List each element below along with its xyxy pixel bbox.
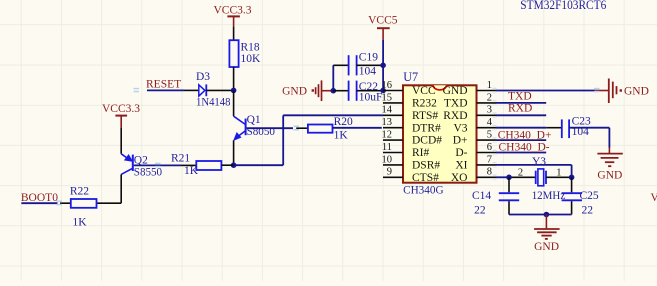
svg-text:16: 16 xyxy=(382,80,393,91)
svg-text:R18: R18 xyxy=(241,42,260,54)
svg-text:8: 8 xyxy=(487,167,492,178)
svg-text:V3: V3 xyxy=(453,122,467,134)
svg-text:22: 22 xyxy=(474,205,486,217)
svg-text:RXD: RXD xyxy=(443,110,467,122)
svg-text:DCD#: DCD# xyxy=(412,135,442,147)
svg-text:D-: D- xyxy=(455,147,467,159)
svg-text:U7: U7 xyxy=(403,70,418,84)
svg-text:12: 12 xyxy=(382,130,393,141)
svg-text:1N4148: 1N4148 xyxy=(196,97,231,109)
svg-text:RXD: RXD xyxy=(508,103,532,115)
svg-text:13: 13 xyxy=(382,117,393,128)
svg-text:6: 6 xyxy=(487,142,492,153)
svg-text:12MHz: 12MHz xyxy=(532,190,566,202)
svg-text:RTS#: RTS# xyxy=(412,110,438,122)
svg-text:C25: C25 xyxy=(580,190,599,202)
svg-text:CTS#: CTS# xyxy=(412,172,439,184)
svg-text:VCC: VCC xyxy=(412,85,436,97)
svg-text:1: 1 xyxy=(487,80,492,91)
svg-text:5: 5 xyxy=(487,130,492,141)
svg-text:CH340G: CH340G xyxy=(403,184,444,196)
svg-text:GND: GND xyxy=(443,85,468,97)
svg-text:D+: D+ xyxy=(453,135,468,147)
svg-text:RI#: RI# xyxy=(412,147,430,159)
svg-text:10uF: 10uF xyxy=(359,92,383,104)
svg-text:GND: GND xyxy=(597,169,622,181)
svg-text:C14: C14 xyxy=(472,190,491,202)
svg-text:104: 104 xyxy=(359,66,377,78)
svg-text:R21: R21 xyxy=(171,153,190,165)
svg-text:9: 9 xyxy=(387,167,392,178)
svg-text:TXD: TXD xyxy=(444,98,468,110)
svg-text:XI: XI xyxy=(455,160,467,172)
svg-text:C19: C19 xyxy=(359,52,378,64)
svg-text:VCC5: VCC5 xyxy=(368,15,398,27)
svg-text:10: 10 xyxy=(382,154,393,165)
svg-text:22: 22 xyxy=(582,205,594,217)
svg-text:14: 14 xyxy=(382,105,393,116)
svg-text:STM32F103RCT6: STM32F103RCT6 xyxy=(520,0,606,12)
svg-text:1K: 1K xyxy=(184,165,199,177)
svg-text:CH340_D+: CH340_D+ xyxy=(498,130,552,142)
svg-text:1: 1 xyxy=(556,167,561,178)
svg-text:DTR#: DTR# xyxy=(412,122,441,134)
svg-text:V: V xyxy=(651,192,657,204)
svg-text:1K: 1K xyxy=(334,130,349,142)
svg-text:BOOT0: BOOT0 xyxy=(21,192,58,204)
svg-text:GND: GND xyxy=(282,86,307,98)
svg-text:R20: R20 xyxy=(334,116,353,128)
svg-text:GND: GND xyxy=(624,85,649,97)
svg-text:7: 7 xyxy=(487,154,492,165)
svg-text:Q1: Q1 xyxy=(247,114,261,126)
svg-text:1K: 1K xyxy=(73,216,88,228)
svg-text:DSR#: DSR# xyxy=(412,160,440,172)
svg-text:D3: D3 xyxy=(196,71,210,83)
svg-text:R232: R232 xyxy=(412,98,437,110)
svg-text:S8550: S8550 xyxy=(134,167,163,179)
svg-text:RESET: RESET xyxy=(146,79,181,91)
svg-text:XO: XO xyxy=(451,172,468,184)
svg-text:11: 11 xyxy=(382,142,392,153)
svg-text:GND: GND xyxy=(534,241,559,253)
svg-text:TXD: TXD xyxy=(508,90,532,102)
svg-text:2: 2 xyxy=(518,167,523,178)
svg-text:15: 15 xyxy=(382,92,393,103)
svg-text:VCC3.3: VCC3.3 xyxy=(102,103,140,115)
svg-text:10K: 10K xyxy=(241,53,262,65)
svg-text:R22: R22 xyxy=(70,186,89,198)
svg-text:Y3: Y3 xyxy=(532,156,546,168)
svg-text:3: 3 xyxy=(487,105,492,116)
svg-text:CH340_D-: CH340_D- xyxy=(499,142,550,154)
svg-text:2: 2 xyxy=(487,92,492,103)
svg-text:VCC3.3: VCC3.3 xyxy=(213,5,251,17)
svg-text:4: 4 xyxy=(487,117,493,128)
